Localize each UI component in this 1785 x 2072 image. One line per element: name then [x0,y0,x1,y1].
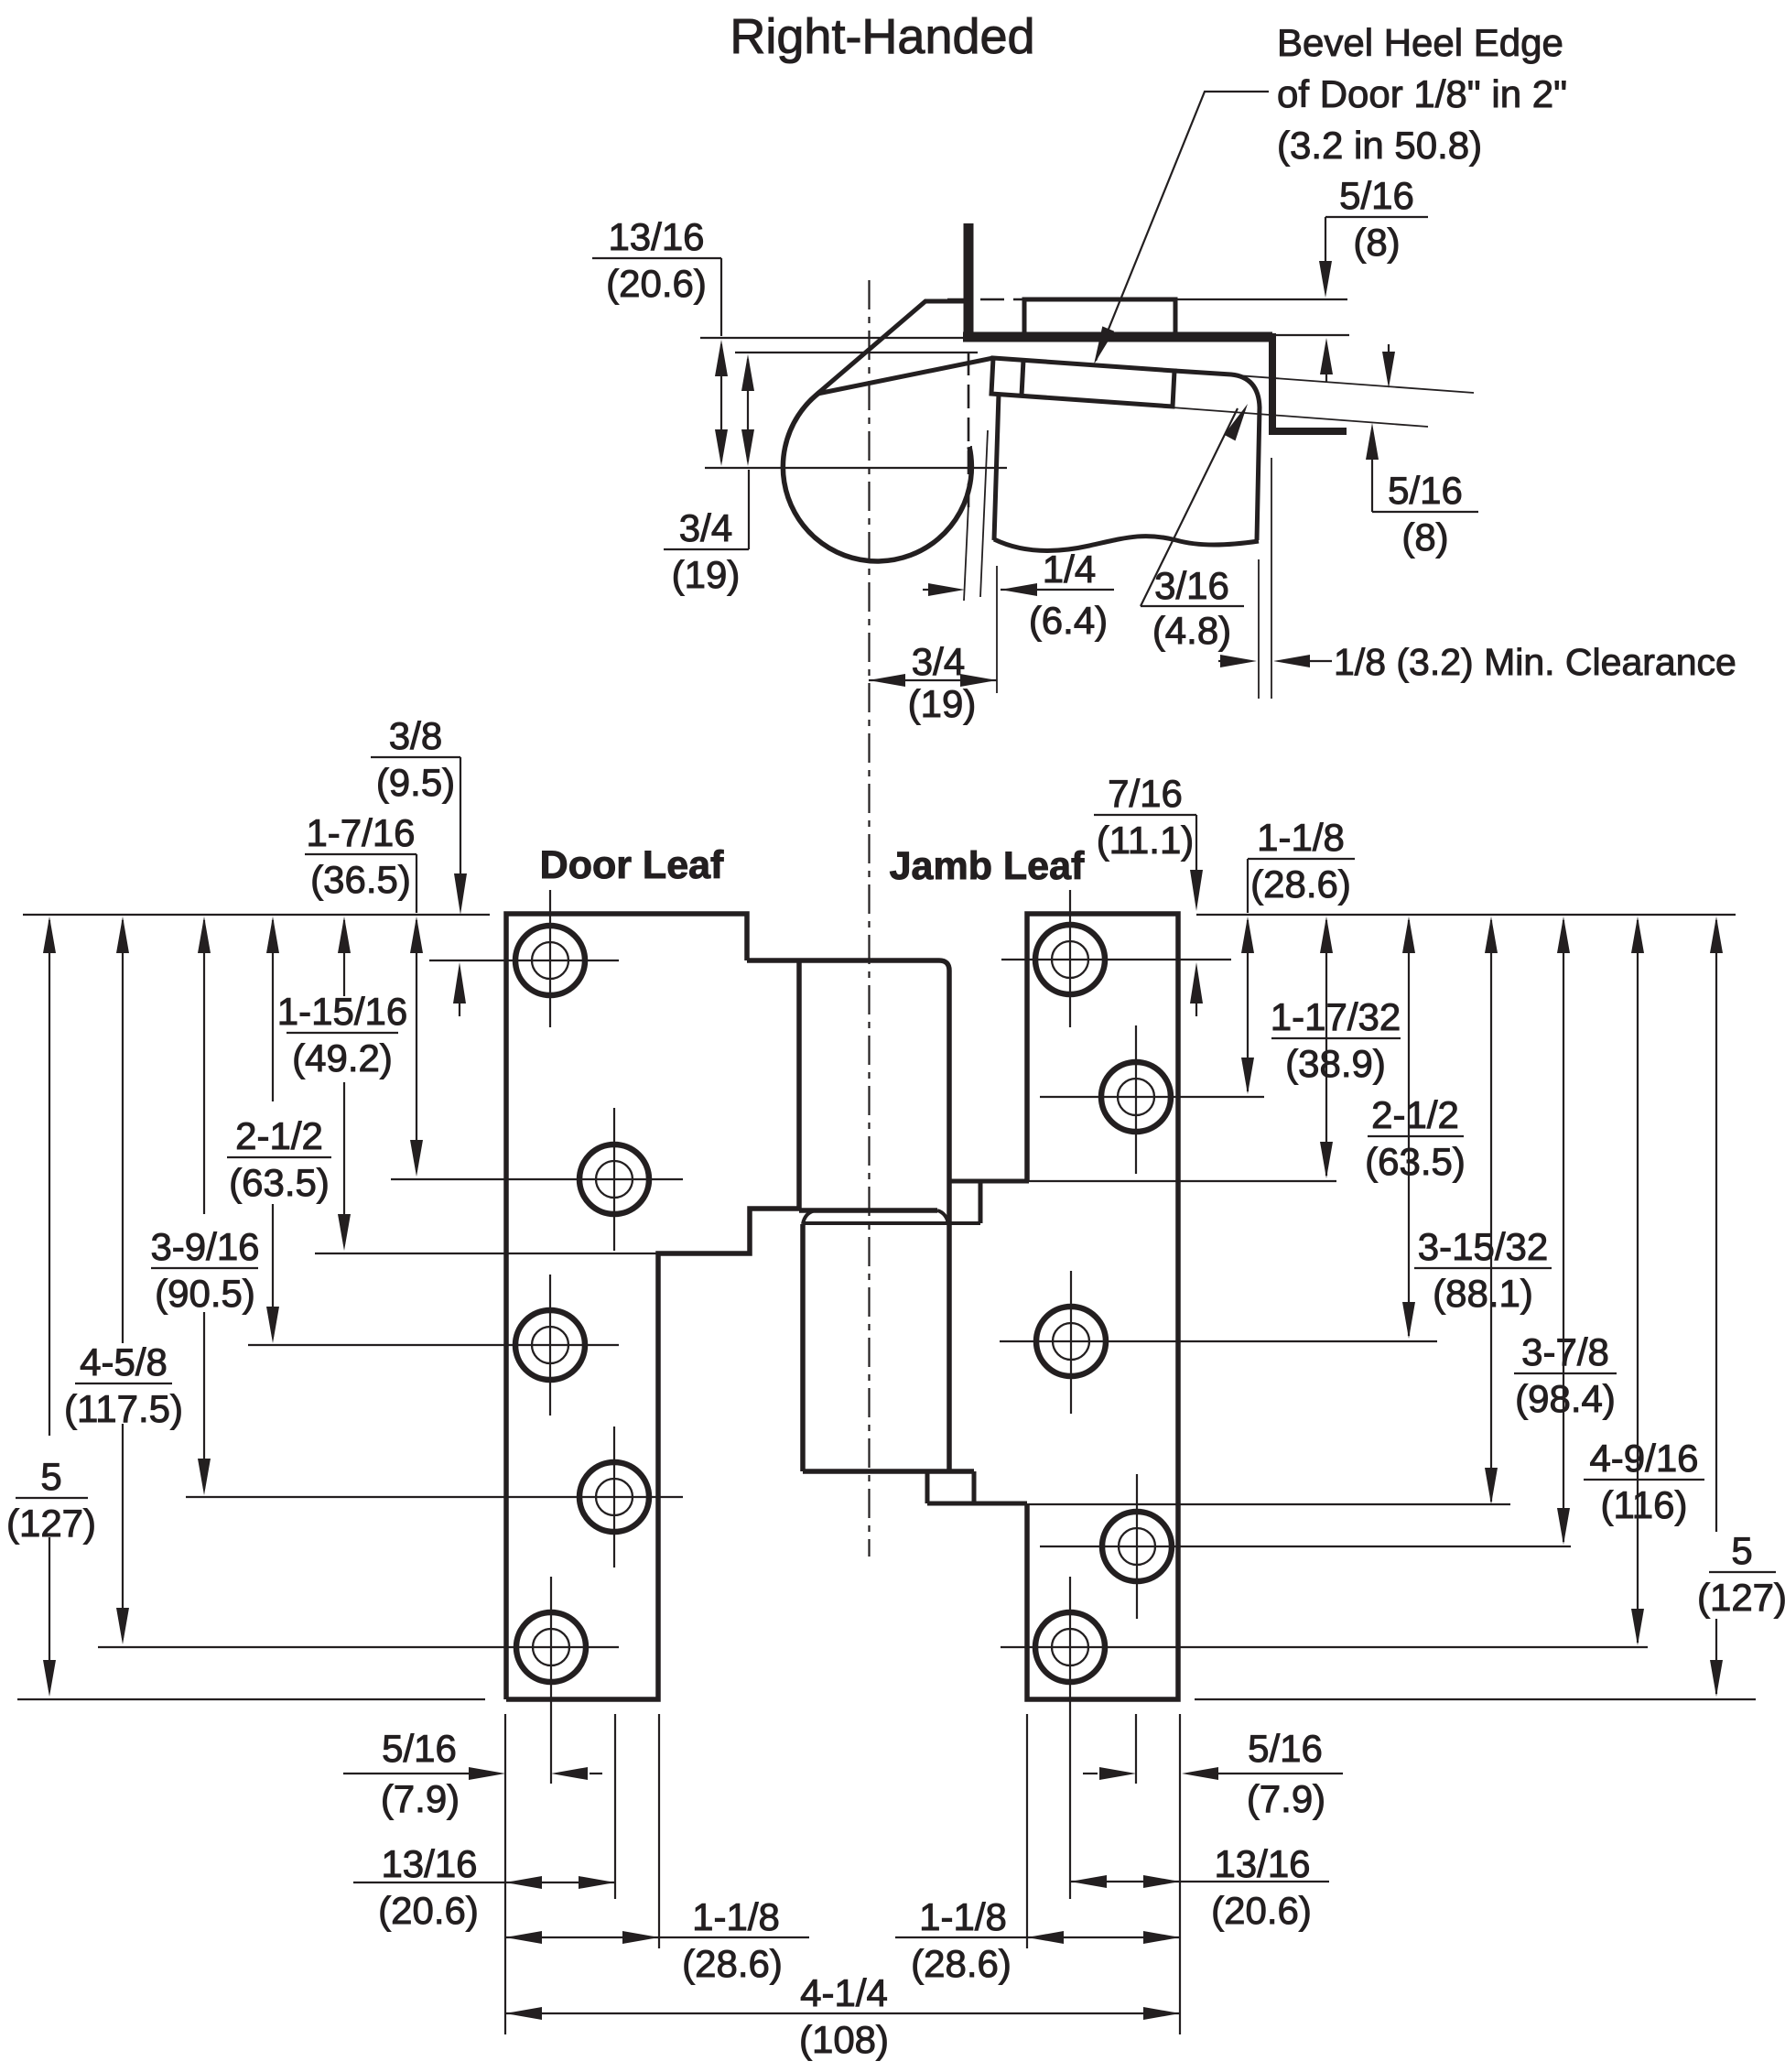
svg-text:3/4: 3/4 [679,506,732,549]
svg-text:(108): (108) [799,2018,889,2061]
svg-text:(127): (127) [6,1502,96,1545]
svg-text:3/16: 3/16 [1154,564,1229,607]
svg-text:(28.6): (28.6) [682,1942,783,1985]
svg-text:4-1/4: 4-1/4 [800,1971,888,2014]
svg-text:13/16: 13/16 [1214,1842,1310,1885]
svg-text:(3.2 in 50.8): (3.2 in 50.8) [1277,124,1482,167]
svg-text:2-1/2: 2-1/2 [235,1114,323,1157]
svg-text:(88.1): (88.1) [1433,1272,1533,1315]
svg-text:(19): (19) [908,682,977,725]
svg-text:(20.6): (20.6) [606,262,707,305]
svg-text:1-1/8: 1-1/8 [919,1895,1007,1938]
svg-text:(7.9): (7.9) [381,1777,460,1820]
svg-text:(49.2): (49.2) [292,1036,393,1079]
svg-text:5/16: 5/16 [1388,469,1463,512]
svg-text:4-9/16: 4-9/16 [1589,1437,1698,1480]
svg-text:(98.4): (98.4) [1515,1377,1616,1420]
svg-text:(28.6): (28.6) [911,1942,1011,1985]
svg-text:3/4: 3/4 [912,640,965,683]
svg-text:1-1/8: 1-1/8 [692,1895,780,1938]
svg-text:Jamb Leaf: Jamb Leaf [890,844,1085,888]
svg-text:1-1/8: 1-1/8 [1257,816,1345,859]
svg-text:(28.6): (28.6) [1250,862,1351,906]
svg-text:2-1/2: 2-1/2 [1371,1093,1459,1136]
svg-text:13/16: 13/16 [381,1842,477,1885]
svg-text:(20.6): (20.6) [1211,1889,1312,1932]
svg-text:5/16: 5/16 [1248,1727,1323,1770]
svg-text:(127): (127) [1697,1576,1785,1619]
svg-text:(9.5): (9.5) [376,761,455,804]
svg-text:1-15/16: 1-15/16 [277,990,407,1033]
svg-text:4-5/8: 4-5/8 [80,1340,168,1383]
svg-text:of Door 1/8" in 2": of Door 1/8" in 2" [1277,72,1567,115]
svg-text:3-7/8: 3-7/8 [1521,1330,1609,1373]
svg-text:1/4: 1/4 [1043,548,1096,591]
svg-text:1/8 (3.2) Min. Clearance: 1/8 (3.2) Min. Clearance [1334,641,1736,683]
svg-text:5: 5 [1731,1529,1752,1572]
svg-text:5/16: 5/16 [382,1727,457,1770]
svg-text:(117.5): (117.5) [64,1387,183,1430]
svg-text:(19): (19) [672,553,741,596]
svg-text:1-17/32: 1-17/32 [1271,995,1401,1038]
svg-text:(36.5): (36.5) [310,858,411,901]
svg-text:(38.9): (38.9) [1285,1042,1386,1085]
svg-text:5: 5 [40,1455,61,1498]
svg-text:(90.5): (90.5) [155,1272,255,1315]
svg-text:1-7/16: 1-7/16 [306,811,415,854]
svg-text:(63.5): (63.5) [1365,1140,1466,1183]
svg-text:13/16: 13/16 [608,215,704,258]
svg-text:(4.8): (4.8) [1152,609,1231,652]
svg-text:3-9/16: 3-9/16 [150,1225,259,1268]
svg-text:(11.1): (11.1) [1097,819,1195,862]
svg-text:Right-Handed: Right-Handed [730,9,1034,64]
svg-text:7/16: 7/16 [1108,772,1183,815]
svg-text:(8): (8) [1401,515,1448,559]
svg-text:3-15/32: 3-15/32 [1418,1225,1548,1268]
svg-text:Door Leaf: Door Leaf [540,843,724,887]
svg-text:(63.5): (63.5) [229,1161,330,1204]
svg-text:Bevel Heel Edge: Bevel Heel Edge [1277,21,1563,64]
svg-text:(8): (8) [1353,221,1400,264]
svg-text:(6.4): (6.4) [1029,599,1108,642]
svg-text:(7.9): (7.9) [1247,1777,1325,1820]
svg-text:5/16: 5/16 [1339,174,1414,217]
svg-text:(20.6): (20.6) [378,1889,479,1932]
svg-text:3/8: 3/8 [389,714,442,757]
svg-text:(116): (116) [1601,1483,1688,1526]
